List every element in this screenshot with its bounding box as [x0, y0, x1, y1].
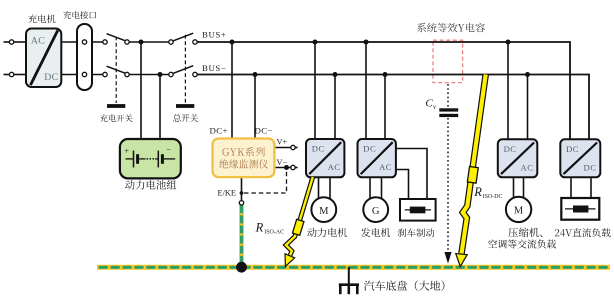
- svg-text:DC: DC: [312, 144, 325, 154]
- svg-text:+: +: [124, 146, 129, 156]
- svg-text:DC: DC: [363, 144, 376, 154]
- svg-text:V−: V−: [277, 158, 288, 167]
- svg-text:M: M: [319, 206, 329, 217]
- svg-text:DC: DC: [44, 72, 58, 83]
- svg-text:DC: DC: [584, 163, 597, 173]
- svg-text:AC: AC: [328, 162, 341, 172]
- svg-text:R: R: [473, 185, 482, 199]
- svg-text:DC+: DC+: [210, 126, 228, 136]
- svg-text:M: M: [514, 206, 524, 217]
- svg-text:Y: Y: [433, 105, 437, 111]
- svg-text:BUS+: BUS+: [202, 29, 226, 39]
- svg-text:AC: AC: [31, 36, 45, 47]
- svg-text:−: −: [166, 145, 171, 155]
- svg-text:E/KE: E/KE: [218, 188, 236, 197]
- svg-text:BUS−: BUS−: [202, 63, 226, 73]
- svg-text:DC−: DC−: [255, 126, 273, 136]
- svg-text:AC: AC: [521, 163, 534, 173]
- svg-text:AC: AC: [379, 162, 392, 172]
- svg-text:R: R: [255, 220, 264, 234]
- svg-text:ISO-AC: ISO-AC: [264, 230, 284, 236]
- svg-text:DC: DC: [504, 144, 517, 154]
- svg-text:V+: V+: [277, 137, 288, 146]
- svg-text:DC: DC: [566, 144, 579, 154]
- svg-text:ISO-DC: ISO-DC: [483, 194, 503, 200]
- svg-text:G: G: [372, 206, 380, 217]
